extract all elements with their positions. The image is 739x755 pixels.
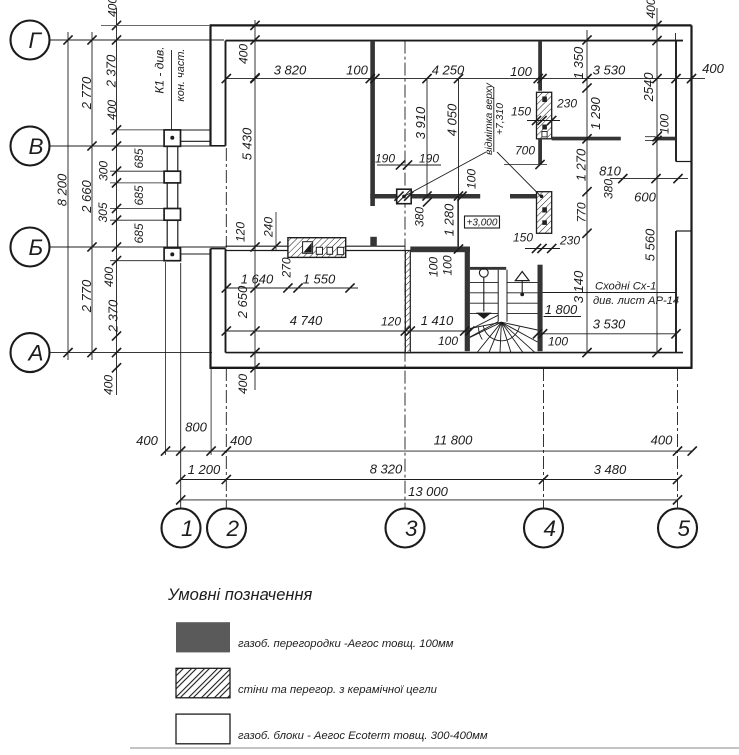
top-left wall edge extension xyxy=(101,24,209,26)
dim ticks col68 xyxy=(63,35,72,357)
dim line 190/190 xyxy=(377,164,441,166)
svg-text:1 280: 1 280 xyxy=(442,203,457,236)
dim row 2 (1200/8320/3480) xyxy=(181,479,678,481)
svg-text:+7,310: +7,310 xyxy=(495,103,506,135)
dim line 2770 column xyxy=(91,32,93,360)
svg-text:4: 4 xyxy=(544,516,557,541)
svg-text:3 530: 3 530 xyxy=(593,317,626,332)
axis line 3 xyxy=(404,41,406,508)
dim ticks 240 xyxy=(271,242,280,251)
svg-text:див. лист АР-14: див. лист АР-14 xyxy=(593,295,679,307)
svg-text:400: 400 xyxy=(644,0,658,19)
svg-text:100: 100 xyxy=(510,64,532,79)
axis circle 1 xyxy=(162,509,201,548)
svg-text:Умовні позначення: Умовні позначення xyxy=(167,586,313,604)
svg-text:100: 100 xyxy=(438,334,458,348)
stair winders fan xyxy=(470,315,538,352)
dim row 4740 left part xyxy=(226,330,470,332)
ext line door jamb xyxy=(504,164,547,166)
stair arc small xyxy=(479,328,483,340)
svg-text:400: 400 xyxy=(101,375,115,395)
K1 connection lines at В xyxy=(181,130,211,141)
ext line stairs corner xyxy=(457,199,459,247)
svg-text:1 270: 1 270 xyxy=(574,148,589,181)
svg-text:Сходні Сх-1: Сходні Сх-1 xyxy=(595,281,656,293)
axis circle 2 xyxy=(207,509,246,548)
svg-text:100: 100 xyxy=(548,334,568,348)
dim ticks brow2 xyxy=(176,475,682,484)
legend box aerated blocks xyxy=(176,714,230,744)
outer wall left upper xyxy=(211,24,226,145)
svg-text:685: 685 xyxy=(132,223,146,243)
svg-text:270: 270 xyxy=(279,257,293,278)
outer wall top xyxy=(211,25,692,40)
svg-text:770: 770 xyxy=(574,202,588,222)
brick lintel block on Б xyxy=(288,238,346,258)
svg-text:2 370: 2 370 xyxy=(106,299,121,333)
svg-text:120: 120 xyxy=(233,222,247,242)
stair treads left flight xyxy=(470,282,498,313)
ext line K1 left xyxy=(165,262,167,455)
svg-text:380: 380 xyxy=(601,179,615,199)
svg-text:2 660: 2 660 xyxy=(79,179,94,213)
axis circle 3 xyxy=(386,509,425,548)
svg-text:11 800: 11 800 xyxy=(434,433,474,448)
window caps right wall xyxy=(676,161,692,163)
dim ticks top row xyxy=(222,74,696,83)
svg-text:1 800: 1 800 xyxy=(545,302,578,317)
stair landing edge bar xyxy=(470,267,506,270)
svg-text:2 770: 2 770 xyxy=(79,76,94,110)
dim ticks col116 xyxy=(112,21,121,373)
svg-text:5 430: 5 430 xyxy=(240,127,255,160)
svg-text:1 350: 1 350 xyxy=(571,46,586,79)
brick pier B1 xyxy=(537,92,552,139)
stair down arrow with circle xyxy=(476,268,492,319)
dim row 1 (400/800/400/11800/400) xyxy=(166,450,693,452)
svg-text:стіни та перегор. з керамічної: стіни та перегор. з керамічної цегли xyxy=(238,684,438,696)
stair wall left xyxy=(465,247,470,352)
svg-text:1: 1 xyxy=(181,516,194,541)
svg-text:4 250: 4 250 xyxy=(432,63,465,78)
svg-text:600: 600 xyxy=(634,190,656,205)
svg-text:685: 685 xyxy=(132,185,146,205)
partition H1 right of door xyxy=(510,194,537,199)
stair well lines xyxy=(498,270,507,322)
svg-text:400: 400 xyxy=(702,61,724,76)
extension of right wall inner edge above corner xyxy=(675,33,677,41)
svg-text:300: 300 xyxy=(96,161,110,181)
dim line 2540/100/5560 column xyxy=(656,8,658,353)
svg-text:100: 100 xyxy=(426,257,440,277)
axis line 2 upper xyxy=(225,148,227,246)
svg-text:240: 240 xyxy=(261,217,275,238)
svg-text:685: 685 xyxy=(132,148,146,168)
brick pier B2 xyxy=(537,192,552,234)
outer wall left lower xyxy=(211,249,226,369)
dim ticks 810/600 xyxy=(618,174,682,183)
dim line 4050 xyxy=(458,79,460,247)
svg-text:газоб. перегородки -Аегос тов: газоб. перегородки -Аегос товщ. 100мм xyxy=(238,638,454,650)
axis line В xyxy=(50,145,212,147)
axis line А xyxy=(50,352,213,354)
dim ticks 190s xyxy=(394,160,466,206)
partition H2 right of door xyxy=(655,137,676,141)
dim line 1350/1290/1270/770/3140 column xyxy=(586,30,588,353)
svg-text:Б: Б xyxy=(29,235,44,260)
stair arc xyxy=(483,326,519,341)
svg-text:800: 800 xyxy=(185,420,207,435)
level mark +3,000 xyxy=(465,216,500,229)
svg-text:400: 400 xyxy=(236,374,250,394)
svg-text:3 910: 3 910 xyxy=(413,106,428,139)
K1 strip rails xyxy=(167,146,178,248)
svg-text:2 370: 2 370 xyxy=(104,54,119,88)
K1 callout text xyxy=(152,46,187,130)
partition V2 mid x=540 xyxy=(538,139,542,164)
dark tab above Б wall xyxy=(370,237,377,247)
svg-text:5: 5 xyxy=(678,516,691,541)
axis circle А xyxy=(11,333,50,372)
svg-text:150: 150 xyxy=(513,230,533,244)
dim ticks col92 xyxy=(87,35,96,357)
svg-text:13 000: 13 000 xyxy=(408,484,449,499)
dim row 3 (13000) xyxy=(181,499,678,501)
stair up arrow xyxy=(515,272,529,297)
dim ticks int verticals xyxy=(422,74,463,254)
ext line bottom wall left xyxy=(210,369,212,455)
svg-text:400: 400 xyxy=(230,433,252,448)
ext line 240 xyxy=(275,212,277,250)
svg-text:400: 400 xyxy=(105,0,119,17)
svg-text:+3,000: +3,000 xyxy=(467,218,498,229)
extension lines from K1 blocks to dim column xyxy=(110,130,164,261)
svg-text:700: 700 xyxy=(515,143,535,157)
dim line 8200 column xyxy=(67,32,69,360)
stair wall right xyxy=(538,265,543,352)
svg-text:190: 190 xyxy=(419,151,439,165)
svg-text:4 050: 4 050 xyxy=(445,103,460,136)
svg-text:3 480: 3 480 xyxy=(594,462,627,477)
svg-text:1 290: 1 290 xyxy=(588,96,603,129)
stairs callout Сходні Сх-1 xyxy=(543,281,680,308)
svg-text:230: 230 xyxy=(556,96,577,110)
dim ticks 700 xyxy=(535,160,544,169)
K1 strip block 2 xyxy=(164,171,180,183)
top dim row line xyxy=(226,78,705,80)
legend box aerated partitions xyxy=(176,622,230,652)
partition H2 left of door xyxy=(552,137,621,141)
axis circle В xyxy=(11,127,50,166)
svg-text:кон. част.: кон. част. xyxy=(175,49,187,102)
svg-text:305: 305 xyxy=(96,202,110,222)
K1 strip top block xyxy=(164,130,180,146)
svg-text:100: 100 xyxy=(440,255,454,275)
callout elevation top +7,310 xyxy=(404,82,541,196)
partition H1 left of door xyxy=(370,194,480,199)
column with cross xyxy=(397,189,412,204)
svg-text:2 650: 2 650 xyxy=(235,285,250,319)
K1 strip bottom block xyxy=(164,248,180,261)
K1 connection line at Б xyxy=(181,253,211,255)
svg-text:2: 2 xyxy=(226,516,240,541)
dim line 5430 column xyxy=(254,20,256,390)
dim 150/230 top xyxy=(527,120,560,122)
legend box ceramic brick xyxy=(176,668,230,698)
dim ticks brow3 xyxy=(176,495,682,504)
tails of 100 dim xyxy=(645,137,656,141)
dark wall on Б right of hatched wall xyxy=(410,247,470,253)
svg-text:400: 400 xyxy=(651,433,673,448)
svg-text:8 320: 8 320 xyxy=(370,462,403,477)
svg-text:2540: 2540 xyxy=(641,72,656,103)
svg-text:8 200: 8 200 xyxy=(55,173,70,206)
svg-text:1 200: 1 200 xyxy=(188,462,221,477)
partition V1 x=372 xyxy=(370,41,375,206)
svg-text:400: 400 xyxy=(136,433,158,448)
svg-text:3: 3 xyxy=(405,516,418,541)
svg-text:1 640: 1 640 xyxy=(241,271,274,286)
dim ticks pier top xyxy=(532,116,556,125)
dim ticks pier bottom xyxy=(532,244,556,253)
svg-text:3 140: 3 140 xyxy=(571,270,586,303)
axis line 1 xyxy=(180,263,182,508)
dim ticks col657 xyxy=(652,21,661,357)
svg-text:3 820: 3 820 xyxy=(274,63,307,78)
dim ticks col587 xyxy=(582,35,591,357)
svg-text:150: 150 xyxy=(511,104,531,118)
dim ticks row333 xyxy=(222,326,681,338)
svg-text:100: 100 xyxy=(464,169,478,189)
outer wall bottom xyxy=(210,353,693,368)
dim row 1640/1550 xyxy=(226,287,358,289)
K1 strip block 3 xyxy=(164,209,180,221)
dim ticks col255 xyxy=(250,21,259,373)
dim line 810/600 xyxy=(610,178,688,180)
svg-text:4 740: 4 740 xyxy=(290,313,323,328)
svg-text:400: 400 xyxy=(102,267,116,287)
axis line 4 xyxy=(543,368,545,508)
svg-text:380: 380 xyxy=(412,207,426,227)
axis line Г xyxy=(50,39,225,41)
svg-text:5 560: 5 560 xyxy=(643,228,658,261)
axis line Б xyxy=(50,246,228,248)
svg-text:1 550: 1 550 xyxy=(303,271,336,286)
dim line 2370/685 column xyxy=(116,8,118,395)
dim row 3530 right part xyxy=(538,333,677,335)
svg-text:газоб. блоки - Аегос Ecoterm т: газоб. блоки - Аегос Ecoterm товщ. 300-4… xyxy=(238,730,488,742)
svg-text:120: 120 xyxy=(381,314,401,328)
dim ticks brow1 xyxy=(161,447,697,456)
svg-text:230: 230 xyxy=(559,233,580,247)
svg-text:400: 400 xyxy=(236,44,250,64)
svg-text:К1 - див.: К1 - див. xyxy=(152,46,166,93)
hatched wall x=405..410 Б to А xyxy=(405,251,410,353)
thin wall 120 on axis Б left part xyxy=(226,246,288,250)
axis circle Б xyxy=(11,228,50,267)
svg-text:Г: Г xyxy=(29,28,43,53)
svg-text:190: 190 xyxy=(375,151,395,165)
stair treads right flight xyxy=(507,282,538,313)
svg-text:400: 400 xyxy=(105,100,119,120)
svg-text:В: В xyxy=(29,134,44,159)
partition V2 upper x=540 xyxy=(538,41,542,91)
outer wall right xyxy=(676,25,692,367)
svg-text:А: А xyxy=(27,341,44,366)
axis line 5 xyxy=(677,368,679,508)
dim 150/230 bottom xyxy=(525,248,560,250)
svg-text:1 410: 1 410 xyxy=(421,313,454,328)
svg-text:100: 100 xyxy=(346,63,368,78)
dim line 3910 xyxy=(426,79,428,194)
axis circle 5 xyxy=(658,509,697,548)
svg-text:810: 810 xyxy=(599,164,621,179)
svg-text:3 530: 3 530 xyxy=(593,63,626,78)
axis line 2 lower xyxy=(225,368,227,508)
axis circle Г xyxy=(11,21,50,60)
svg-text:100: 100 xyxy=(657,114,671,134)
axis circle 4 xyxy=(524,509,563,548)
sheet bottom line xyxy=(130,747,739,749)
thin wall 120 on axis Б right part xyxy=(346,246,406,250)
label 1 800 underlined xyxy=(544,302,582,317)
svg-text:2 770: 2 770 xyxy=(79,279,94,313)
dim ticks row288 xyxy=(222,283,355,292)
